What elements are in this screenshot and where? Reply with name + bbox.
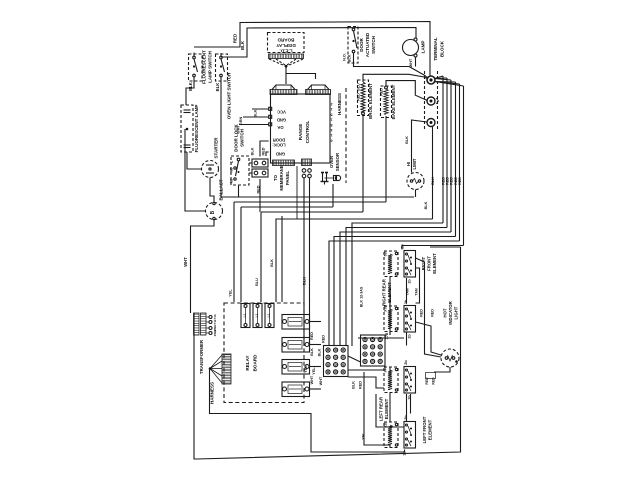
svg-text:YEL: YEL — [304, 365, 308, 373]
pin VCC — [269, 107, 272, 110]
svg-text:TAN: TAN — [415, 288, 419, 296]
svg-text:LAMP SWITCH: LAMP SWITCH — [208, 51, 213, 83]
wire sensor down — [332, 184, 334, 207]
wire starter to ballast — [210, 178, 214, 203]
wire terminal3 to hi limit — [412, 120, 428, 173]
oven light switch box — [216, 54, 228, 81]
svg-text:RIGHT: RIGHT — [421, 256, 426, 270]
wire TAN 2 — [416, 268, 420, 303]
hi limit circle — [407, 173, 424, 190]
boundary top right stub — [430, 246, 461, 248]
svg-text:63#: 63# — [384, 251, 388, 257]
svg-text:0: 0 — [330, 138, 332, 142]
svg-text:HARNESS: HARNESS — [210, 382, 215, 404]
svg-text:RED: RED — [431, 309, 435, 317]
transformer windings — [194, 313, 200, 335]
svg-text:RED: RED — [233, 34, 238, 43]
svg-text:TAN: TAN — [406, 288, 410, 296]
svg-text:DOOR: DOOR — [273, 138, 286, 143]
svg-text:BOARD: BOARD — [277, 38, 295, 43]
wire door switch to lamp white — [354, 53, 410, 67]
wire broil top to terminal1 — [363, 74, 428, 82]
svg-text:BLK: BLK — [310, 348, 314, 356]
terminal 3 — [427, 119, 435, 127]
svg-text:STARTER: STARTER — [214, 137, 219, 159]
connector block left — [324, 346, 349, 377]
door actuated switch box — [348, 27, 358, 64]
svg-text:YEL: YEL — [312, 367, 316, 375]
svg-text:RELAY: RELAY — [245, 355, 250, 370]
relay K5 horizontal — [282, 338, 310, 353]
wire top feed L1 (RED) — [194, 22, 430, 76]
wire door lock pins — [260, 141, 269, 157]
broil element coil — [361, 82, 365, 112]
svg-text:1: 1 — [330, 107, 332, 111]
door lock connector 2 — [252, 169, 268, 177]
svg-text:#44: #44 — [384, 367, 388, 373]
wire hot light down — [434, 367, 450, 372]
svg-text:WHT: WHT — [319, 376, 323, 385]
svg-text:2b: 2b — [401, 244, 405, 249]
svg-text:FLUORESCENT: FLUORESCENT — [202, 50, 207, 84]
hi limit internals — [410, 180, 412, 182]
wire bake bottom down — [385, 116, 387, 202]
relay K7 horizontal — [282, 382, 310, 397]
svg-text:TO: TO — [273, 174, 278, 181]
svg-text:BLK: BLK — [424, 201, 428, 209]
hot indicator internals — [445, 357, 448, 360]
svg-text:5: 5 — [330, 112, 332, 116]
svg-text:RED: RED — [432, 377, 436, 385]
wire P3 coil bottom — [389, 393, 391, 423]
aux connector pins — [302, 169, 306, 173]
bake element box — [381, 86, 392, 118]
L.E.D. display fan — [269, 59, 284, 66]
wire block diag — [348, 356, 361, 362]
wire P3 coil top to block — [389, 367, 391, 377]
wire pin OA WHT — [239, 124, 269, 126]
svg-text:NO: NO — [230, 178, 234, 183]
svg-text:BROIL ELEMENT: BROIL ELEMENT — [368, 83, 373, 119]
svg-text:BLK: BLK — [215, 83, 220, 92]
relay output wires — [309, 321, 321, 323]
transformer pins — [209, 316, 212, 319]
wire TAN P1 to P2 — [406, 278, 408, 303]
relay K4 horizontal — [282, 315, 310, 330]
svg-text:BLK: BLK — [405, 136, 409, 144]
wire lamp left return — [185, 129, 206, 211]
svg-text:HI: HI — [406, 162, 411, 166]
svg-text:BLU: BLU — [255, 278, 259, 286]
svg-text:RED: RED — [458, 177, 462, 185]
wire bake top to terminal2 — [386, 81, 428, 101]
oven sensor bulb — [335, 175, 340, 180]
wire top feed L2 (BLK) — [221, 28, 416, 58]
wire hi limit down to bus — [415, 190, 417, 198]
svg-text:2WH: 2WH — [213, 330, 217, 337]
svg-text:BAKE ELEMENT: BAKE ELEMENT — [391, 84, 396, 119]
svg-text:BLK: BLK — [318, 348, 322, 356]
svg-text:ELEMENT: ELEMENT — [432, 253, 437, 274]
svg-text:TRANSFORMER: TRANSFORMER — [199, 339, 204, 374]
svg-text:L1: L1 — [255, 313, 259, 317]
relay K6 horizontal — [282, 360, 310, 375]
wire door lock sw down — [238, 185, 240, 197]
pin GND — [269, 115, 272, 118]
left front element unit — [384, 422, 398, 448]
svg-text:RED: RED — [420, 309, 424, 317]
wire RED to hot light 2 — [416, 322, 442, 355]
boundary right and bottom wire — [194, 247, 461, 459]
svg-text:RED: RED — [425, 377, 429, 385]
oven lamp circle — [403, 40, 419, 56]
wire membrane panel drop — [296, 166, 298, 219]
bus wire B4 broil — [261, 211, 363, 213]
svg-text:MEMBRANE: MEMBRANE — [279, 165, 284, 190]
svg-text:LIGHT: LIGHT — [454, 306, 459, 319]
svg-text:L.E.D.: L.E.D. — [279, 49, 292, 54]
svg-text:WHT: WHT — [310, 375, 314, 384]
left rear element unit — [384, 367, 398, 393]
door lock switch contacts — [237, 158, 240, 161]
svg-text:4: 4 — [330, 128, 332, 132]
svg-text:BLK: BLK — [352, 381, 356, 389]
svg-text:HARNESS: HARNESS — [337, 93, 342, 115]
svg-text:BLK: BLK — [240, 40, 245, 50]
fluorescent lamp switch contacts — [193, 56, 196, 59]
relay K2 vertical — [253, 304, 262, 328]
L.E.D. display board box — [268, 33, 305, 53]
oven sensor tee connector — [322, 173, 324, 182]
wire ballast to transformer WHT — [191, 220, 215, 313]
relay board dashed box — [224, 303, 304, 403]
wire harness down — [210, 369, 405, 453]
wire transformer bottom — [193, 313, 195, 335]
svg-text:TERMINAL: TERMINAL — [433, 37, 438, 60]
aux connector bar — [302, 159, 312, 166]
svg-text:OVEN: OVEN — [329, 156, 334, 168]
svg-text:T11: T11 — [213, 319, 217, 324]
svg-text:RED: RED — [322, 335, 326, 343]
bus wire B1 oven light — [221, 77, 414, 197]
svg-text:X7B: X7B — [384, 305, 388, 312]
range control board box — [271, 94, 331, 163]
terminal fan wires — [435, 76, 444, 79]
svg-text:WHT: WHT — [183, 257, 188, 267]
svg-text:RED: RED — [262, 147, 266, 155]
svg-text:BLK 12-3AS: BLK 12-3AS — [360, 286, 364, 307]
svg-text:RED: RED — [310, 332, 314, 340]
hot indicator light circle — [441, 349, 459, 367]
bus wire L5 — [329, 241, 460, 346]
wire fluorescent switch to lamp — [186, 77, 194, 105]
relay K1 vertical — [241, 304, 250, 328]
svg-text:BLK: BLK — [302, 277, 307, 285]
svg-text:1: 1 — [330, 118, 332, 122]
svg-text:8: 8 — [330, 123, 332, 127]
relay K3 vertical — [265, 304, 274, 328]
L.E.D. display connector bar — [269, 54, 304, 59]
svg-text:CONTROL: CONTROL — [305, 120, 310, 143]
harness dashed line — [345, 88, 347, 183]
wire lamp to terminal 1 — [409, 67, 428, 79]
bake element coil — [384, 89, 388, 114]
svg-text:2b: 2b — [404, 360, 408, 365]
bus wire long — [281, 216, 283, 302]
broil element box — [358, 80, 369, 116]
svg-text:VCC: VCC — [277, 109, 286, 114]
terminal 2 tick — [436, 98, 439, 104]
svg-text:B: B — [210, 210, 216, 214]
fluorescent lamp switch box — [189, 54, 203, 81]
wire door lock conn down — [259, 179, 261, 212]
svg-text:GND: GND — [276, 152, 285, 157]
starter internals — [206, 164, 214, 166]
svg-text:RED: RED — [450, 177, 454, 185]
svg-text:SENSOR: SENSOR — [335, 152, 340, 171]
svg-text:RED: RED — [380, 88, 384, 96]
svg-text:1: 1 — [330, 133, 332, 137]
svg-text:DOOR: DOOR — [359, 37, 364, 51]
bus wire S1 — [402, 246, 464, 250]
svg-text:RANGE: RANGE — [298, 124, 303, 141]
relay harness ribbon — [222, 354, 231, 384]
svg-text:BLOCK: BLOCK — [440, 40, 445, 57]
svg-text:BOARD: BOARD — [253, 354, 258, 372]
svg-text:L1: L1 — [243, 313, 247, 317]
wire P2 coil top — [389, 302, 391, 306]
right rear element unit — [384, 306, 398, 332]
ribbon connector A — [270, 90, 297, 95]
fluorescent lamp box — [181, 105, 193, 152]
bus wire L4 — [334, 237, 456, 347]
oven lamp terminals — [414, 38, 417, 41]
connector block right — [361, 335, 386, 366]
wire P3 to P4 — [406, 394, 408, 422]
membrane connector bar — [273, 160, 295, 166]
svg-text:ELEMENT: ELEMENT — [384, 398, 389, 419]
pin OA — [269, 123, 272, 126]
ballast circle — [206, 203, 223, 220]
svg-text:BLK: BLK — [254, 109, 258, 117]
svg-text:RED: RED — [357, 93, 361, 101]
wire P4 coil bottom YEL — [364, 372, 390, 448]
svg-text:NC: NC — [230, 167, 234, 172]
svg-text:PANEL: PANEL — [285, 171, 290, 186]
wire lamp lead WHT — [415, 57, 417, 67]
svg-text:ACTUATED: ACTUATED — [365, 32, 370, 57]
svg-text:L1: L1 — [267, 313, 271, 317]
svg-text:OA: OA — [277, 125, 283, 130]
bus wire L3 — [340, 232, 451, 346]
svg-text:ELEMENT: ELEMENT — [428, 419, 433, 440]
svg-text:T13: T13 — [213, 314, 217, 320]
terminal 2 — [427, 97, 435, 105]
relay harness fan — [210, 355, 222, 369]
wire broil bottom down — [362, 115, 364, 212]
label RED hot1 — [425, 373, 436, 385]
svg-text:HOT: HOT — [443, 308, 448, 317]
wire pin VCC BLK — [252, 108, 269, 110]
wire block to P3 — [348, 369, 384, 371]
fluorescent lamp internals — [184, 109, 191, 111]
bus wire B5 BLK — [276, 219, 433, 302]
right front element unit — [384, 251, 398, 277]
svg-text:RIGHT REAR: RIGHT REAR — [382, 278, 387, 306]
svg-text:RED: RED — [359, 381, 363, 389]
svg-text:WHT: WHT — [409, 58, 413, 67]
svg-text:2: 2 — [330, 102, 332, 106]
wire pin GND GRN — [243, 116, 269, 118]
terminal block dashed — [424, 71, 426, 131]
svg-text:BLK: BLK — [188, 82, 193, 91]
bus wire B3 sensor — [241, 206, 333, 208]
wire lamp to starter — [187, 152, 202, 169]
bus wire B2 bake — [234, 201, 386, 203]
door lock connector 1 — [252, 159, 268, 167]
svg-text:DISPLAY: DISPLAY — [276, 43, 296, 48]
wire P2 coil bottom — [389, 332, 391, 336]
wire P1 coil to block — [389, 277, 391, 336]
svg-text:BLU: BLU — [357, 83, 361, 91]
svg-text:GND: GND — [277, 117, 286, 122]
svg-text:BLK: BLK — [270, 259, 274, 267]
svg-text:LAMP: LAMP — [421, 41, 426, 54]
wire aux pins down — [303, 178, 305, 346]
svg-text:GRN: GRN — [239, 117, 243, 126]
svg-text:1b: 1b — [408, 279, 412, 284]
svg-text:SWITCH: SWITCH — [240, 129, 245, 147]
wire P2 to P3 wires — [406, 333, 408, 346]
wire P4 2b up — [376, 394, 404, 427]
svg-text:INDICATOR: INDICATOR — [448, 300, 453, 324]
node display feed — [285, 65, 288, 68]
svg-text:FLUORESCENT LAMP: FLUORESCENT LAMP — [194, 105, 199, 153]
svg-text:DOOR LOCK: DOOR LOCK — [234, 124, 239, 152]
svg-text:N.O.: N.O. — [343, 53, 347, 61]
svg-text:BLK: BLK — [431, 177, 435, 185]
svg-text:LEFT REAR: LEFT REAR — [379, 396, 384, 421]
svg-text:OVEN LIGHT SWITCH: OVEN LIGHT SWITCH — [227, 73, 232, 120]
svg-text:BLK: BLK — [251, 147, 255, 155]
svg-text:1b: 1b — [403, 451, 407, 456]
svg-text:BLK: BLK — [348, 54, 352, 62]
svg-text:LIMIT: LIMIT — [412, 158, 417, 169]
svg-text:SWITCH: SWITCH — [371, 36, 376, 54]
right bundle vertical wires — [432, 127, 434, 219]
oven light switch contacts — [220, 56, 223, 59]
wire P3 1b down — [410, 394, 412, 414]
svg-text:LOCK:: LOCK: — [272, 143, 285, 148]
svg-text:YEL: YEL — [229, 289, 233, 297]
bus wire L2 — [346, 228, 447, 347]
starter circle — [202, 161, 219, 178]
wire RED to hot light — [416, 258, 442, 357]
door actuated switch contacts — [352, 28, 355, 31]
svg-text:1b: 1b — [408, 334, 412, 339]
terminal 1 — [427, 76, 435, 84]
svg-text:FRONT: FRONT — [427, 256, 432, 271]
wire display to range control — [286, 66, 316, 79]
svg-text:LEFT FRONT: LEFT FRONT — [422, 416, 427, 443]
bus wire L1 — [352, 223, 443, 346]
door lock switch box — [231, 156, 249, 185]
ribbon connector B — [306, 90, 331, 95]
